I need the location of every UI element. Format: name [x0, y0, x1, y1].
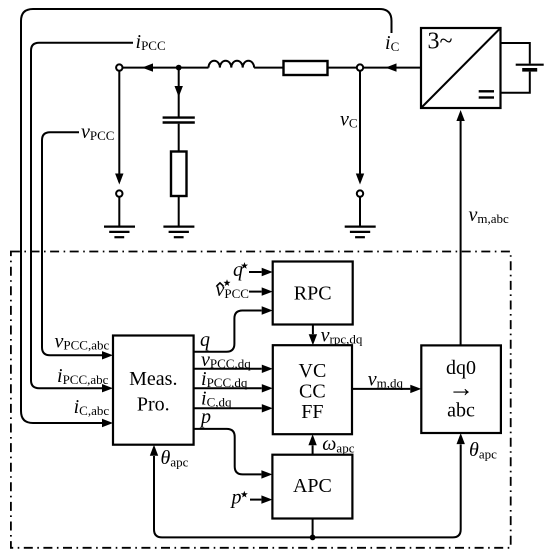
svg-text:Meas.: Meas. — [129, 368, 177, 390]
wire i_PCC measurement tap — [31, 43, 133, 389]
arrowhead i_C,dq — [262, 404, 273, 412]
wire junction to inductor — [179, 67, 209, 69]
wire converter to battery (top, DC+) — [501, 43, 530, 64]
signal p from Meas. Pro. to APC — [194, 429, 262, 475]
signal v_m,dq VC to dq0/abc — [352, 388, 410, 390]
svg-text:RPC: RPC — [294, 283, 332, 305]
arrowhead into converter modulation input — [456, 110, 464, 121]
battery B1 positive plate (long) — [516, 64, 544, 66]
wire i_C measurement tap (top run into controller) — [21, 9, 392, 423]
capacitor C1 top plate — [163, 116, 195, 118]
wire resistor R2 to ground — [178, 196, 180, 227]
arrowhead v_C measurement direction (down) — [356, 174, 364, 185]
svg-text:APC: APC — [293, 475, 332, 497]
signal i_C,dq Meas. Pro. to VC — [194, 407, 262, 409]
node converter AC terminal (open circle) — [357, 64, 363, 70]
arrowhead i_PCC current direction (left) — [142, 63, 153, 71]
svg-text:vPCC: vPCC — [81, 121, 114, 143]
signal omega_apc APC to VC — [312, 445, 314, 454]
capacitor C1 bottom plate — [163, 121, 195, 123]
arrowhead v_m,dq — [410, 385, 421, 393]
block RPC (reactive power control) — [273, 262, 353, 325]
wire resistor R1 to converter terminal node — [328, 67, 357, 69]
wire converter voltage measurement branch (down) — [359, 71, 361, 182]
junction node on theta_apc feedback bus — [310, 535, 316, 541]
signal v_rpc,dq RPC to VC — [312, 325, 314, 335]
wire theta_apc feedback bus to dq0/abc — [313, 444, 461, 537]
svg-text:iPCC,abc: iPCC,abc — [57, 365, 109, 387]
wire capacitor to resistor R2 — [178, 124, 180, 152]
svg-text:iC,abc: iC,abc — [74, 396, 110, 418]
signal v̂*_PCC reference into RPC — [249, 291, 262, 293]
label v̂*_PCC — [216, 279, 249, 301]
svg-text:abc: abc — [447, 400, 475, 422]
arrowhead p* — [261, 495, 272, 503]
svg-text:p: p — [230, 487, 242, 509]
arrowhead into Meas. Pro. i_PCC,abc input — [102, 384, 113, 392]
signal q* reference into RPC — [249, 271, 262, 273]
resistor R1 (series) — [284, 61, 328, 75]
svg-text:vm,dq: vm,dq — [368, 369, 404, 391]
battery B1 negative plate (short, thick) — [522, 68, 537, 72]
svg-text:vrpc,dq: vrpc,dq — [321, 325, 363, 347]
converter diagonal divider — [421, 28, 501, 108]
svg-text:p: p — [199, 406, 211, 428]
arrowhead i_PCC,dq — [262, 384, 273, 392]
svg-text:VC: VC — [299, 360, 327, 382]
svg-text:CC: CC — [299, 381, 326, 403]
arrowhead v_rpc,dq — [309, 334, 317, 345]
svg-text:q: q — [200, 329, 210, 351]
arrowhead v̂*_PCC — [262, 287, 273, 295]
ground (v_C measurement) — [345, 227, 376, 238]
svg-text:q: q — [233, 259, 243, 281]
arrowhead q* — [262, 268, 273, 276]
DC-side symbol (=) inside converter — [479, 91, 494, 97]
arrowhead current into filter (down) — [175, 86, 183, 97]
arrowhead theta_apc into dq0/abc — [457, 433, 465, 444]
signal v_PCC,dq Meas. Pro. to VC — [194, 368, 262, 370]
svg-text:vPCC,abc: vPCC,abc — [55, 331, 110, 353]
terminal node above ground (open circle) — [116, 190, 122, 196]
wire v_m,abc from dq0/abc block up to converter — [460, 119, 462, 345]
svg-text:θapc: θapc — [469, 439, 497, 462]
node PCC terminal (open circle) — [116, 64, 122, 70]
wire v_PCC measurement tap — [42, 132, 102, 355]
svg-text:→: → — [448, 374, 474, 403]
svg-text:3~: 3~ — [428, 29, 453, 55]
arrowhead omega_apc — [308, 434, 316, 445]
svg-text:θapc: θapc — [161, 447, 189, 470]
arrowhead q into RPC — [262, 306, 273, 314]
terminal node above ground (open circle) — [357, 190, 363, 196]
resistor R2 (filter damping) — [171, 152, 187, 197]
signal i_PCC,dq Meas. Pro. to VC — [194, 387, 262, 389]
svg-text:FF: FF — [301, 401, 323, 423]
signal q from Meas. Pro. to RPC — [194, 311, 262, 352]
inductor L1 (series filter inductor) — [209, 61, 255, 68]
wire APC output down to feedback bus — [312, 519, 314, 538]
controller boundary (dash-dot frame) — [11, 252, 511, 548]
label q* — [233, 259, 248, 281]
wire filter shunt branch (down from junction) — [178, 68, 180, 117]
ground (filter) — [163, 227, 194, 238]
svg-text:iC: iC — [385, 32, 399, 54]
block VC CC FF (voltage/current control + feedforward) — [273, 345, 352, 434]
label p* — [230, 487, 248, 509]
svg-text:vC: vC — [340, 109, 358, 131]
block dq0->abc transform — [421, 345, 501, 433]
svg-text:iPCC,dq: iPCC,dq — [201, 368, 248, 390]
arrowhead measurement direction (down) — [115, 174, 123, 185]
wire terminal to ground — [118, 197, 120, 227]
block Meas. Pro. (measurement processing) — [113, 336, 194, 445]
arrowhead into Meas. Pro. v_PCC,abc input — [102, 351, 113, 359]
arrowhead v_PCC,dq — [262, 365, 273, 373]
svg-text:vm,abc: vm,abc — [469, 204, 510, 226]
wire PCC measurement branch (down) — [118, 71, 120, 182]
ground (PCC measurement) — [104, 227, 135, 238]
wire inductor to resistor R1 — [254, 67, 283, 69]
svg-text:iPCC: iPCC — [136, 31, 166, 53]
arrowhead i_C current direction (left) — [386, 63, 397, 71]
arrowhead into Meas. Pro. i_C,abc input — [102, 419, 113, 427]
wire terminal to ground — [359, 197, 361, 227]
block APC (active power control) — [272, 455, 352, 519]
wire converter terminal to converter — [363, 67, 421, 69]
svg-text:ωapc: ωapc — [322, 433, 354, 456]
wire PCC terminal to filter junction — [123, 67, 179, 69]
svg-text:Pro.: Pro. — [137, 394, 170, 416]
converter U1 (3~/= voltage source converter) box — [421, 28, 501, 108]
arrowhead theta_apc into Meas. Pro. — [150, 445, 158, 456]
signal p* reference into APC — [250, 499, 261, 501]
junction node (filter branch) — [176, 65, 182, 71]
wire theta_apc feedback bus to Meas. Pro. — [154, 456, 313, 537]
arrowhead p into APC — [261, 470, 272, 478]
wire battery to converter (bottom, DC-) — [501, 72, 530, 93]
